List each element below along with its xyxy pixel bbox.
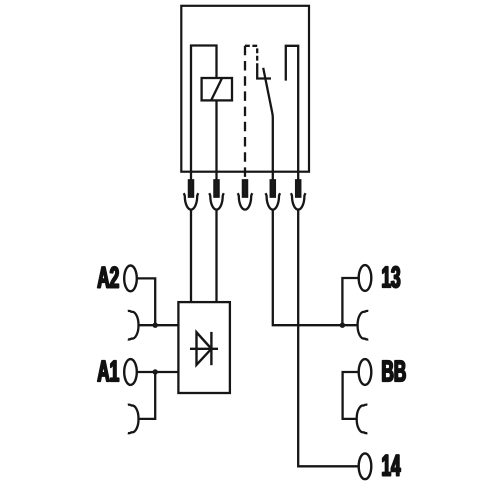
terminal 13 (359, 265, 372, 291)
wire coil loop (pin1 up, across, down to coil) (191, 46, 217, 181)
socket 13 bridge (358, 311, 369, 340)
dashed linkage branch to contact (245, 46, 257, 65)
wire pin2 socket down to suppressor block (215, 210, 217, 302)
wire coil to pin 2 (215, 100, 217, 180)
relay module outline (181, 6, 309, 172)
junction 13 rail (340, 323, 345, 328)
wire pin1 socket down to suppressor block (190, 210, 192, 302)
junction A2/socket (153, 323, 158, 328)
socket contact 5 (291, 193, 306, 209)
wire A1 to suppressor block (137, 371, 179, 373)
socket contact 4 (266, 193, 281, 209)
diode D1 (190, 348, 218, 350)
pin 1 (189, 180, 193, 196)
terminal 14 (359, 453, 372, 479)
pin 3 (243, 180, 247, 196)
wire A2 to junction (137, 278, 155, 325)
socket BB bridge (357, 405, 368, 434)
socket contact 2 (209, 193, 224, 209)
pin 2 (214, 180, 218, 196)
socket A1 bridge (128, 405, 139, 434)
label 14 (383, 455, 401, 476)
terminal A2 (124, 266, 137, 292)
mechanical linkage dashed line (244, 46, 246, 180)
wire pin5 socket down to 14 (298, 210, 359, 466)
relay coil K1 (202, 78, 232, 100)
label BB (383, 361, 406, 382)
wire A1 socket up to junction (139, 372, 156, 419)
NO contact terminal loop to pin 5 (286, 46, 298, 181)
label 13 (383, 266, 400, 287)
contact blade and wire to pin 4 (263, 68, 273, 181)
junction A1 (153, 369, 158, 374)
contact fixed terminal L (257, 64, 271, 79)
socket contact 1 (184, 193, 199, 209)
label A2 (98, 267, 119, 288)
wire BB to its socket (343, 372, 359, 419)
wire pin4 socket down then right to 13 rail (273, 210, 358, 325)
wire A2 socket to suppressor block (139, 324, 179, 326)
terminal BB (359, 359, 372, 385)
socket A2 bridge (128, 311, 139, 340)
pin 4 (271, 180, 275, 196)
wire 13 to junction (342, 278, 358, 325)
label A1 (98, 361, 119, 382)
pin 5 (296, 180, 300, 196)
socket contact 3 (238, 193, 253, 209)
suppressor diode block (178, 302, 230, 393)
terminal A1 (124, 359, 137, 385)
